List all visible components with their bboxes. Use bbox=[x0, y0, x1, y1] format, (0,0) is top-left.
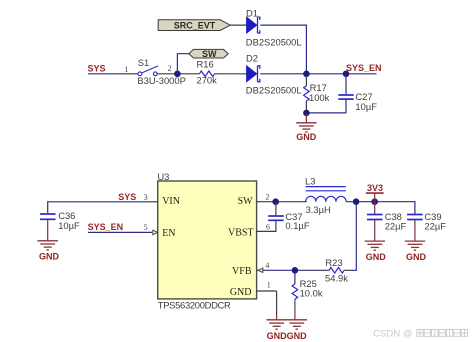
junction divider node bbox=[292, 267, 299, 274]
ground GND (C38) bbox=[365, 241, 385, 250]
svg-text:270k: 270k bbox=[197, 75, 218, 86]
svg-text:10µF: 10µF bbox=[58, 220, 80, 231]
svg-text:22µF: 22µF bbox=[385, 221, 407, 232]
svg-text:D1: D1 bbox=[246, 7, 258, 18]
wire GND pin to ground bbox=[257, 290, 277, 292]
pin 5 EN input arrow bbox=[153, 230, 158, 234]
svg-text:VBST: VBST bbox=[228, 228, 254, 239]
svg-text:SRC_EVT: SRC_EVT bbox=[174, 20, 216, 30]
ground GND (top) bbox=[296, 114, 316, 132]
diode D1 bbox=[247, 17, 260, 33]
svg-text:5: 5 bbox=[144, 223, 148, 232]
ground GND (C39) bbox=[405, 241, 425, 250]
pin 2 of S1 / wire to R16 bbox=[157, 73, 199, 75]
svg-text:10.0k: 10.0k bbox=[300, 288, 323, 299]
svg-text:EN: EN bbox=[162, 228, 175, 239]
svg-text:GND: GND bbox=[230, 287, 252, 298]
ground GND (right of pair) bbox=[287, 320, 307, 329]
wire SW to L3 bbox=[267, 201, 307, 203]
svg-text:0.1µF: 0.1µF bbox=[285, 220, 309, 231]
diode D2 bbox=[247, 66, 260, 82]
power port 3V3 bbox=[366, 183, 384, 202]
junction 3V3 tap bbox=[371, 198, 378, 205]
svg-text:DB2S20500L: DB2S20500L bbox=[246, 36, 302, 47]
svg-text:R16: R16 bbox=[197, 58, 214, 69]
junction at S1 pin2 bbox=[174, 71, 181, 78]
svg-text:2: 2 bbox=[265, 193, 269, 202]
capacitor C37 bbox=[257, 202, 284, 232]
wire D2 cathode to SYS_EN node bbox=[260, 73, 376, 75]
capacitor C39 bbox=[407, 215, 423, 242]
ground GND (C36) bbox=[38, 241, 58, 250]
wire D1 cathode to junction (down) bbox=[260, 25, 306, 70]
resistor R23 bbox=[329, 205, 356, 273]
svg-text:SYS_EN: SYS_EN bbox=[346, 63, 382, 73]
inductor L3 bbox=[305, 175, 346, 201]
wire SYS bbox=[88, 73, 122, 75]
wire VFB to divider node bbox=[267, 269, 295, 271]
junction D1/D2/R17 bbox=[303, 71, 310, 78]
wire R16 to D2 anode bbox=[215, 73, 247, 75]
pin 1 of S1 bbox=[122, 73, 138, 75]
svg-text:SYS: SYS bbox=[88, 64, 106, 74]
svg-text:SYS: SYS bbox=[118, 192, 136, 202]
svg-text:SW: SW bbox=[238, 196, 254, 207]
svg-text:SYS_EN: SYS_EN bbox=[88, 222, 124, 232]
op-amp U3 body bbox=[158, 181, 257, 299]
ground GND (left of pair) bbox=[266, 320, 286, 329]
svg-text:6: 6 bbox=[266, 222, 270, 231]
wire SYS to VIN bbox=[48, 202, 147, 213]
capacitor C27 bbox=[338, 76, 353, 113]
svg-text:3V3: 3V3 bbox=[367, 183, 383, 193]
svg-text:R23: R23 bbox=[325, 257, 342, 268]
port SW bbox=[189, 49, 228, 59]
capacitor C36 bbox=[40, 214, 56, 241]
svg-text:L3: L3 bbox=[305, 175, 315, 186]
junction C27 tap bbox=[343, 71, 350, 78]
wire C27 bottom to R17 bottom bbox=[306, 112, 346, 114]
wire SRC_EVT to D1 anode bbox=[230, 24, 247, 26]
svg-text:GND: GND bbox=[39, 252, 60, 262]
svg-text:TPS563200DDCR: TPS563200DDCR bbox=[158, 300, 231, 311]
svg-text:4: 4 bbox=[265, 261, 269, 270]
wire junction to SW tag bbox=[177, 54, 189, 74]
resistor R16 bbox=[199, 71, 214, 77]
wire SYS_EN to EN bbox=[88, 231, 152, 233]
capacitor C38 bbox=[367, 202, 383, 241]
svg-text:3: 3 bbox=[144, 193, 148, 202]
svg-text:100k: 100k bbox=[309, 92, 330, 103]
svg-text:DB2S20500L: DB2S20500L bbox=[246, 85, 302, 96]
svg-text:22µF: 22µF bbox=[424, 221, 446, 232]
svg-text:VIN: VIN bbox=[162, 196, 180, 207]
watermark CSDN bbox=[373, 329, 413, 340]
svg-text:S1: S1 bbox=[138, 57, 149, 68]
svg-text:10µF: 10µF bbox=[355, 101, 377, 112]
svg-text:VFB: VFB bbox=[232, 266, 252, 277]
resistor R25 bbox=[292, 274, 298, 320]
svg-text:GND: GND bbox=[406, 252, 427, 262]
svg-text:GND: GND bbox=[296, 132, 317, 142]
wire L3 to output rail bbox=[346, 202, 415, 214]
svg-text:CSDN @: CSDN @ bbox=[373, 329, 413, 340]
junction R17 bottom bbox=[303, 110, 310, 117]
junction L3 out / feedback bbox=[353, 198, 360, 205]
port SRC_EVT bbox=[158, 20, 230, 31]
svg-text:54.9k: 54.9k bbox=[325, 272, 348, 283]
switch S1 bbox=[138, 66, 158, 76]
svg-text:D2: D2 bbox=[246, 52, 258, 63]
svg-text:1: 1 bbox=[124, 65, 128, 74]
svg-text:3.3µH: 3.3µH bbox=[306, 204, 331, 215]
svg-text:GND: GND bbox=[366, 252, 387, 262]
svg-text:GNDGND: GNDGND bbox=[267, 331, 307, 341]
resistor R17 bbox=[304, 76, 310, 111]
svg-text:2: 2 bbox=[168, 64, 172, 73]
svg-text:1: 1 bbox=[267, 281, 271, 290]
pin 3 VIN bbox=[147, 201, 158, 203]
junction SW node bbox=[272, 198, 279, 205]
